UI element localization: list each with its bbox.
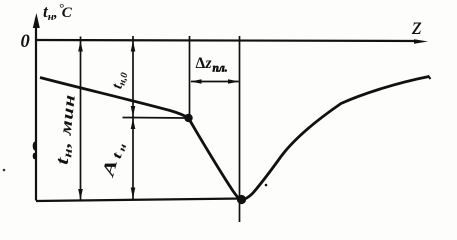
svg-text:Δ: Δ bbox=[196, 55, 206, 72]
svg-text:пл.: пл. bbox=[213, 63, 228, 75]
svg-text:0: 0 bbox=[21, 32, 30, 52]
svg-text:z: z bbox=[205, 55, 212, 72]
svg-text:z: z bbox=[411, 13, 422, 40]
